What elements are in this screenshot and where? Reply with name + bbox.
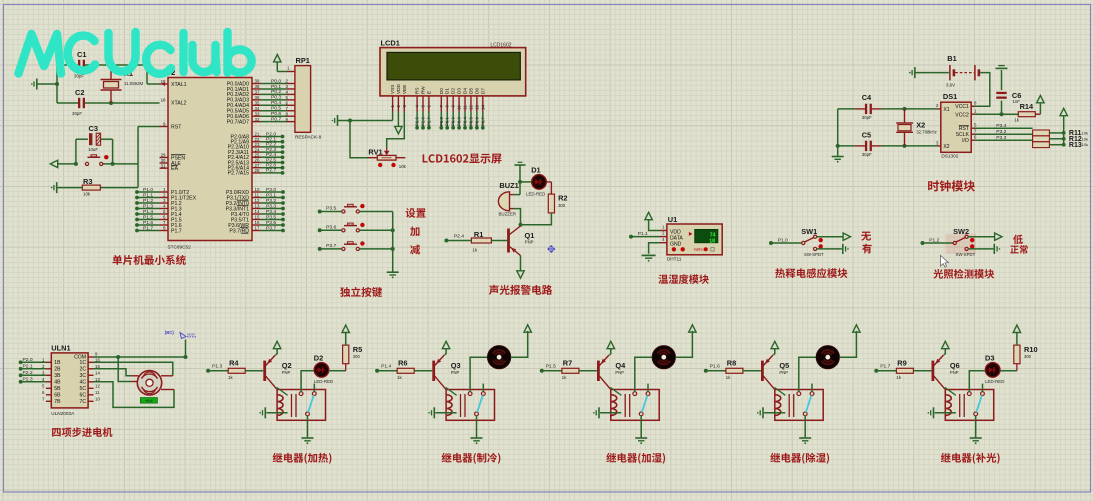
ground (battery) bbox=[914, 67, 916, 78]
mcu U2 STC89C52 body bbox=[168, 78, 252, 241]
capacitor C6 bbox=[1001, 101, 1003, 115]
svg-text:10k: 10k bbox=[1082, 136, 1088, 141]
svg-text:P0.0/AD0: P0.0/AD0 bbox=[227, 81, 249, 87]
node XTAL1 junction bbox=[55, 82, 59, 86]
svg-text:300: 300 bbox=[558, 203, 566, 208]
dht11 U1 body bbox=[667, 224, 722, 255]
svg-text:D1: D1 bbox=[445, 88, 450, 94]
svg-text:P2.1: P2.1 bbox=[266, 137, 276, 143]
wire P1.1 to DATA bbox=[629, 235, 633, 239]
svg-text:LED-RED: LED-RED bbox=[526, 191, 545, 196]
relay lever (cyan) bbox=[976, 395, 982, 412]
wire SW2 throw B to ground bbox=[968, 248, 993, 250]
resistor R2 bbox=[548, 194, 554, 213]
battery B1 bbox=[947, 54, 956, 63]
svg-text:SW-SPDT: SW-SPDT bbox=[956, 252, 976, 257]
svg-text:VEE: VEE bbox=[402, 85, 407, 94]
wire 2C to motor left-top bbox=[94, 369, 132, 376]
svg-text:P3.1: P3.1 bbox=[266, 192, 276, 198]
svg-text:10k: 10k bbox=[83, 192, 91, 197]
wire buzzer terminals bbox=[514, 194, 521, 196]
led D3 bbox=[985, 353, 994, 362]
wire contact to motor bbox=[470, 357, 487, 392]
svg-text:GND: GND bbox=[670, 242, 682, 248]
svg-text:P3.7: P3.7 bbox=[266, 225, 276, 231]
wire Q3 collector to coil bbox=[446, 387, 457, 395]
svg-text:4C: 4C bbox=[79, 380, 86, 386]
RV1 state dots bbox=[378, 163, 382, 167]
svg-text:P2.6: P2.6 bbox=[266, 163, 276, 169]
wire COM branch to motor bbox=[118, 357, 131, 382]
wire Q6 collector to coil bbox=[945, 387, 956, 395]
power arrow (R14) bbox=[1037, 95, 1044, 102]
power arrow (motor) bbox=[689, 325, 696, 332]
label 独立按键 bbox=[340, 287, 382, 297]
capacitor C2 bbox=[78, 98, 80, 108]
label 四项步进电机 bbox=[52, 427, 112, 437]
svg-text:P1.3: P1.3 bbox=[212, 364, 222, 370]
svg-text:PNP: PNP bbox=[282, 370, 291, 375]
svg-text:R6: R6 bbox=[398, 358, 407, 367]
svg-text:C6: C6 bbox=[1012, 91, 1021, 100]
capacitor C3 electrolytic bbox=[89, 133, 92, 145]
svg-text:RST: RST bbox=[959, 126, 969, 132]
power arrow (R5) bbox=[342, 325, 349, 332]
svg-text:P1.4: P1.4 bbox=[171, 212, 182, 218]
svg-text:P1.6: P1.6 bbox=[171, 223, 182, 229]
crystal X1 bbox=[110, 65, 112, 79]
motor (fan) bbox=[652, 346, 675, 369]
svg-text:30pF: 30pF bbox=[862, 115, 872, 120]
svg-text:D2: D2 bbox=[451, 88, 456, 94]
svg-text:1C: 1C bbox=[79, 360, 86, 366]
svg-text:Q1: Q1 bbox=[525, 231, 535, 240]
svg-text:7C: 7C bbox=[79, 399, 86, 405]
wire R14 to power bbox=[1035, 113, 1040, 115]
svg-text:19: 19 bbox=[161, 79, 166, 84]
svg-text:D1: D1 bbox=[531, 166, 540, 175]
wire DHT11 GND bbox=[649, 243, 660, 254]
wire contact to motor bbox=[799, 357, 816, 392]
transistor Q2 PNP bbox=[263, 361, 266, 381]
wire button P3.5 input bbox=[318, 210, 322, 214]
label 热释电感应模块 bbox=[775, 268, 847, 278]
svg-text:P0.7: P0.7 bbox=[271, 116, 281, 122]
wire coil to ground bbox=[764, 412, 785, 414]
wire button P3.7 input bbox=[318, 247, 322, 251]
wire Q1 collector bbox=[520, 225, 522, 226]
power arrow (Q2) bbox=[273, 341, 280, 348]
switch SW2 SW-SPDT bbox=[953, 241, 956, 244]
resistor R1 bbox=[471, 238, 491, 243]
mcu U2 left pin names bbox=[171, 82, 187, 88]
svg-text:13: 13 bbox=[474, 104, 479, 109]
ground (R3) bbox=[56, 182, 58, 193]
dht11 display bbox=[695, 230, 718, 243]
resistor R8 bbox=[726, 368, 743, 373]
mcu U2 P1 pin names bbox=[171, 190, 189, 196]
svg-text:ULN1: ULN1 bbox=[51, 344, 70, 353]
switch SW1 label bbox=[801, 227, 817, 236]
svg-text:P0.6: P0.6 bbox=[474, 117, 479, 126]
svg-text:P0.5: P0.5 bbox=[271, 106, 281, 112]
capacitor C5 bbox=[862, 130, 871, 139]
ground (contact Q5) bbox=[799, 437, 811, 439]
svg-text:P2.7: P2.7 bbox=[426, 117, 431, 126]
wire button P3.6 input bbox=[318, 228, 322, 232]
svg-text:PNP: PNP bbox=[451, 370, 460, 375]
svg-text:C3: C3 bbox=[89, 124, 98, 133]
led D2 bbox=[314, 353, 323, 362]
svg-text:B1: B1 bbox=[947, 54, 956, 63]
mcu U2 P3 pin names bbox=[226, 190, 249, 196]
node reset junctions bbox=[74, 162, 78, 166]
svg-text:LED-RED: LED-RED bbox=[985, 379, 1004, 384]
wire SW2 throw A to power bbox=[968, 236, 994, 238]
svg-text:P0.2: P0.2 bbox=[451, 117, 456, 126]
svg-text:P2.0: P2.0 bbox=[266, 131, 276, 137]
svg-text:VDD: VDD bbox=[670, 229, 681, 235]
svg-text:R5: R5 bbox=[353, 345, 362, 354]
MCUclub logo bbox=[19, 32, 252, 74]
ground (SW2) bbox=[993, 244, 995, 254]
svg-text:10k: 10k bbox=[1082, 142, 1088, 147]
svg-text:10: 10 bbox=[95, 397, 100, 402]
svg-text:PNP: PNP bbox=[525, 240, 534, 245]
ground (coil Q5) bbox=[762, 407, 764, 418]
svg-text:+0.0: +0.0 bbox=[145, 399, 152, 403]
svg-text:R14: R14 bbox=[1020, 102, 1034, 111]
dht11 U1 pin stubs bbox=[660, 230, 667, 232]
respack RP1 body bbox=[295, 66, 311, 133]
wire D1 to R2 bbox=[520, 181, 532, 183]
svg-text:P0.5/AD5: P0.5/AD5 bbox=[227, 109, 249, 115]
svg-text:P3.0: P3.0 bbox=[266, 187, 276, 193]
svg-text:R10: R10 bbox=[1024, 345, 1038, 354]
svg-text:1B: 1B bbox=[54, 360, 61, 366]
svg-text:7B: 7B bbox=[54, 399, 61, 405]
svg-text:P1.7: P1.7 bbox=[880, 364, 890, 370]
svg-text:P0.4: P0.4 bbox=[271, 100, 281, 106]
wire R10 to power bbox=[1016, 333, 1018, 346]
wire Q4 collector to coil bbox=[610, 387, 621, 395]
respack RP1 pin 1 wire to power bbox=[287, 71, 295, 73]
svg-text:BUZ1: BUZ1 bbox=[499, 181, 518, 190]
svg-text:4B: 4B bbox=[54, 380, 61, 386]
switch SW1 SW-SPDT bbox=[802, 241, 805, 244]
annotation (BC) bbox=[165, 330, 175, 335]
resistor R14 bbox=[1018, 112, 1035, 117]
uln ULN1 body bbox=[51, 353, 88, 408]
wire led to R10 bbox=[1000, 370, 1017, 372]
wire coil to ground bbox=[935, 412, 956, 414]
capacitor C1 bbox=[78, 60, 80, 70]
svg-text:P0.5: P0.5 bbox=[468, 117, 473, 126]
relay RL (继电器(制冷)) bbox=[446, 390, 494, 421]
svg-text:Q5: Q5 bbox=[779, 361, 789, 370]
power arrow (motor) bbox=[853, 325, 860, 332]
svg-text:10k: 10k bbox=[1082, 130, 1088, 135]
wire coil to ground bbox=[600, 412, 621, 414]
ground up (C6) bbox=[996, 67, 1008, 69]
wire bottom contact to ground bbox=[476, 415, 478, 437]
stepper motor M1 bbox=[131, 375, 139, 377]
svg-text:P2.5: P2.5 bbox=[266, 157, 276, 163]
resistor R6 bbox=[397, 368, 414, 373]
svg-text:SW-SPDT: SW-SPDT bbox=[804, 252, 824, 257]
svg-text:P2.2: P2.2 bbox=[266, 142, 276, 148]
svg-text:R7: R7 bbox=[563, 358, 572, 367]
wire motor to power bbox=[839, 331, 856, 357]
ground arrow (Q1) bbox=[517, 271, 524, 278]
power arrow (R10) bbox=[1013, 325, 1020, 332]
wire DHT11 VDD bbox=[649, 220, 660, 231]
ground (coil Q4) bbox=[598, 407, 600, 418]
wire bottom contact to ground bbox=[975, 415, 977, 437]
svg-text:P3.5: P3.5 bbox=[266, 214, 276, 220]
label 继电器(加热) bbox=[273, 453, 332, 464]
svg-text:P3.6: P3.6 bbox=[266, 220, 276, 226]
power arrow (Q6) bbox=[942, 341, 949, 348]
wire motor to power bbox=[511, 331, 528, 357]
power bar (alarm) bbox=[515, 164, 526, 166]
ground (coil Q2) bbox=[264, 407, 266, 418]
svg-text:P0.6: P0.6 bbox=[271, 111, 281, 117]
resistor R10 bbox=[1016, 364, 1018, 371]
wire LCD VSS to ground bbox=[338, 120, 393, 122]
capacitor C4 bbox=[862, 93, 872, 102]
svg-text:P1.0/T2: P1.0/T2 bbox=[171, 190, 189, 196]
svg-text:2B: 2B bbox=[54, 367, 61, 373]
pin stubs DS1302 bbox=[937, 108, 941, 110]
label 光照检测模块 bbox=[933, 269, 994, 279]
svg-text:P0.3/AD3: P0.3/AD3 bbox=[227, 98, 249, 104]
svg-text:D7: D7 bbox=[480, 88, 485, 94]
svg-text:5C: 5C bbox=[79, 386, 86, 392]
wire SW2 input bbox=[921, 241, 925, 245]
power arrow right (SW1) bbox=[843, 233, 850, 240]
wire Q5 emitter to power bbox=[773, 353, 775, 355]
ground (LCD) bbox=[337, 115, 339, 126]
svg-text:C5: C5 bbox=[862, 130, 871, 139]
power arrow (motor) bbox=[524, 325, 531, 332]
svg-text:PNP: PNP bbox=[615, 370, 624, 375]
svg-text:P0.1: P0.1 bbox=[445, 117, 450, 126]
wire R8 to base bbox=[743, 370, 761, 372]
ground (coil Q6) bbox=[933, 407, 935, 418]
pin stub XTAL1 bbox=[160, 83, 169, 85]
push button RESET bbox=[85, 162, 88, 165]
svg-text:P2.4: P2.4 bbox=[266, 152, 276, 158]
svg-text:P0.0: P0.0 bbox=[439, 117, 444, 126]
svg-text:X2: X2 bbox=[943, 144, 949, 150]
wire R4 to base bbox=[245, 370, 263, 372]
svg-text:14: 14 bbox=[95, 371, 100, 376]
wire coil to ground bbox=[435, 412, 456, 414]
svg-text:P0.1: P0.1 bbox=[271, 84, 281, 90]
svg-text:VDD: VDD bbox=[396, 83, 401, 94]
svg-text:2C: 2C bbox=[79, 367, 86, 373]
push button KEY2 (P3.6) bbox=[342, 229, 345, 232]
svg-text:P0.7: P0.7 bbox=[480, 117, 485, 126]
crystal X2 bbox=[904, 109, 906, 123]
svg-text:P0.3: P0.3 bbox=[271, 95, 281, 101]
svg-text:5B: 5B bbox=[54, 386, 61, 392]
transistor Q4 PNP bbox=[597, 361, 600, 381]
transistor Q6 PNP bbox=[932, 361, 935, 381]
wire button to ground bus bbox=[359, 229, 392, 231]
svg-text:PNP: PNP bbox=[779, 370, 788, 375]
svg-text:P0.7/AD7: P0.7/AD7 bbox=[227, 119, 249, 125]
svg-text:VCC1: VCC1 bbox=[955, 104, 969, 110]
svg-text:P1.4: P1.4 bbox=[143, 209, 153, 215]
svg-text:R4: R4 bbox=[229, 358, 239, 367]
power arrow (pullups) bbox=[1060, 108, 1067, 115]
svg-text:32.768kHz: 32.768kHz bbox=[916, 129, 937, 134]
svg-text:RP1: RP1 bbox=[296, 56, 310, 65]
wire bottom contact to ground bbox=[804, 415, 806, 437]
ground (contact Q4) bbox=[635, 437, 647, 439]
svg-text:DS1302: DS1302 bbox=[941, 154, 958, 159]
svg-text:30pF: 30pF bbox=[72, 111, 82, 116]
svg-text:XTAL2: XTAL2 bbox=[171, 100, 187, 106]
wire P1.6 input bbox=[704, 369, 708, 373]
wire Q4 emitter to power bbox=[609, 353, 611, 355]
wire P2 net stubs with labels bbox=[252, 136, 261, 138]
svg-text:18: 18 bbox=[161, 98, 166, 103]
wire contact to led bbox=[301, 371, 314, 392]
label 时钟模块 bbox=[928, 180, 975, 191]
svg-text:DS1: DS1 bbox=[943, 92, 957, 101]
svg-text:P0.0: P0.0 bbox=[271, 78, 281, 84]
label 无 有 bbox=[861, 232, 871, 241]
svg-text:%RH: %RH bbox=[694, 247, 704, 252]
svg-text:P1.2: P1.2 bbox=[171, 201, 182, 207]
svg-text:E: E bbox=[426, 91, 431, 94]
svg-text:10k: 10k bbox=[399, 164, 407, 169]
wire led to R5 bbox=[329, 370, 346, 372]
label 继电器(加湿) bbox=[606, 453, 665, 464]
wire R5 to power bbox=[345, 333, 347, 346]
svg-text:P3.2: P3.2 bbox=[996, 129, 1006, 135]
wire Q2 emitter to power bbox=[276, 353, 278, 355]
svg-text:P0.1/AD1: P0.1/AD1 bbox=[227, 87, 249, 93]
svg-text:3C: 3C bbox=[79, 373, 86, 379]
wire NC contact stub bbox=[482, 384, 484, 393]
resistor R4 bbox=[228, 368, 245, 373]
wire battery left bbox=[915, 72, 949, 74]
ground (contact Q2) bbox=[302, 437, 314, 439]
wire RV1 to ground net bbox=[350, 121, 368, 158]
svg-text:Q2: Q2 bbox=[282, 361, 292, 370]
selection highlight bbox=[945, 234, 976, 254]
svg-text:RST: RST bbox=[171, 124, 182, 130]
svg-text:C1: C1 bbox=[77, 50, 86, 59]
lcd screen bbox=[387, 52, 520, 80]
label 设置 加 减 bbox=[406, 208, 426, 218]
svg-text:D0: D0 bbox=[439, 88, 444, 94]
wire P1.7 input bbox=[874, 369, 878, 373]
wire COM net bbox=[94, 356, 186, 358]
svg-text:P2.6: P2.6 bbox=[421, 117, 426, 126]
wire Q5 collector to coil bbox=[774, 387, 785, 395]
svg-text:P1.3: P1.3 bbox=[171, 206, 182, 212]
svg-text:P0.4/AD4: P0.4/AD4 bbox=[227, 103, 249, 109]
power arrow (Q4) bbox=[607, 341, 614, 348]
svg-text:C2: C2 bbox=[75, 88, 84, 97]
svg-text:P2.4: P2.4 bbox=[454, 234, 464, 240]
ground (DHT11) bbox=[642, 254, 656, 256]
svg-text:P1.4: P1.4 bbox=[381, 364, 391, 370]
ground (SW1) bbox=[842, 244, 844, 254]
svg-text:P3.3: P3.3 bbox=[996, 135, 1006, 141]
lcd LCD1 body bbox=[380, 48, 526, 96]
push button KEY3 (P3.7) bbox=[342, 247, 345, 250]
wire Q1 emitter to ground arrow bbox=[520, 256, 522, 272]
svg-text:P0.3: P0.3 bbox=[457, 117, 462, 126]
svg-text:R13: R13 bbox=[1069, 142, 1082, 149]
svg-text:18: 18 bbox=[709, 238, 715, 244]
motor (fan) bbox=[816, 346, 839, 369]
wire P0 bus to RP1 bbox=[252, 83, 261, 85]
wire button to ground bus bbox=[359, 211, 392, 213]
svg-text:12: 12 bbox=[468, 104, 473, 109]
resistor R3 bbox=[82, 185, 100, 190]
svg-text:P1.6: P1.6 bbox=[710, 364, 720, 370]
buzzer BUZ1 bbox=[499, 181, 518, 190]
mcu U2 P2 pin names bbox=[231, 134, 250, 140]
svg-text:P3.4: P3.4 bbox=[266, 209, 276, 215]
ds1302 DS1 body bbox=[941, 102, 971, 152]
lcd power pins VSS VDD VEE bbox=[390, 85, 395, 94]
svg-text:BUZZER: BUZZER bbox=[499, 212, 517, 217]
svg-text:P0.2: P0.2 bbox=[271, 89, 281, 95]
relay lever (cyan) bbox=[477, 395, 483, 412]
wire R7 to base bbox=[579, 370, 597, 372]
pin stub RST bbox=[160, 126, 169, 128]
power arrow down (LCD VDD) bbox=[395, 126, 402, 133]
wire bottom contact to ground bbox=[307, 415, 309, 437]
label 单片机最小系统 bbox=[113, 255, 186, 265]
transistor Q5 PNP bbox=[761, 361, 764, 381]
svg-text:STC89C52: STC89C52 bbox=[168, 245, 192, 250]
svg-text:P1.3: P1.3 bbox=[143, 203, 153, 209]
dht11 indicator dots bbox=[672, 247, 676, 251]
wire NC contact stub bbox=[811, 384, 813, 393]
wire XTAL1 net bbox=[37, 83, 57, 85]
svg-text:R1: R1 bbox=[474, 230, 483, 239]
svg-text:PSEN: PSEN bbox=[171, 155, 185, 161]
power arrow (DHT11) bbox=[645, 212, 652, 219]
wire motor to power bbox=[675, 331, 692, 357]
ground (contact Q3) bbox=[471, 437, 483, 439]
wire caps to ground bbox=[838, 108, 855, 110]
wire P2.0-P2.3 inputs bbox=[19, 360, 23, 364]
wire SW1 throw B to ground bbox=[817, 248, 842, 250]
svg-text:P1.2: P1.2 bbox=[143, 198, 153, 204]
svg-text:10: 10 bbox=[457, 104, 462, 109]
svg-text:P0.6/AD6: P0.6/AD6 bbox=[227, 114, 249, 120]
wire P3 net stubs with labels bbox=[252, 191, 261, 193]
push button KEY1 (P3.5) bbox=[342, 210, 345, 213]
reset circuit wires bbox=[58, 163, 76, 165]
svg-text:P3.4/T0: P3.4/T0 bbox=[231, 212, 249, 218]
svg-text:P2.7/A15: P2.7/A15 bbox=[228, 171, 249, 177]
wire coil to ground bbox=[266, 412, 287, 414]
svg-text:P1.6: P1.6 bbox=[143, 220, 153, 226]
relay RL (继电器(加湿)) bbox=[611, 390, 659, 421]
relay RL (继电器(加热)) bbox=[277, 390, 325, 421]
